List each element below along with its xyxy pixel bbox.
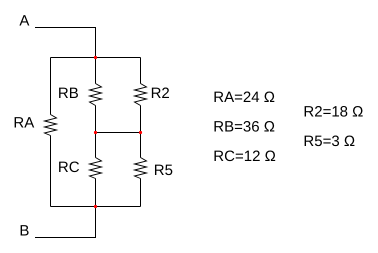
svg-text:RA: RA bbox=[13, 114, 34, 131]
svg-text:RB: RB bbox=[58, 85, 79, 102]
svg-text:R5=3 Ω: R5=3 Ω bbox=[303, 133, 355, 150]
svg-text:B: B bbox=[19, 222, 29, 239]
svg-text:R5: R5 bbox=[154, 162, 173, 179]
svg-text:RA=24 Ω: RA=24 Ω bbox=[213, 89, 275, 106]
svg-text:R2: R2 bbox=[151, 85, 170, 102]
svg-text:RB=36 Ω: RB=36 Ω bbox=[213, 118, 275, 135]
svg-text:RC: RC bbox=[58, 159, 80, 176]
svg-text:A: A bbox=[19, 12, 29, 29]
svg-text:RC=12 Ω: RC=12 Ω bbox=[213, 148, 275, 165]
svg-text:R2=18 Ω: R2=18 Ω bbox=[303, 103, 363, 120]
